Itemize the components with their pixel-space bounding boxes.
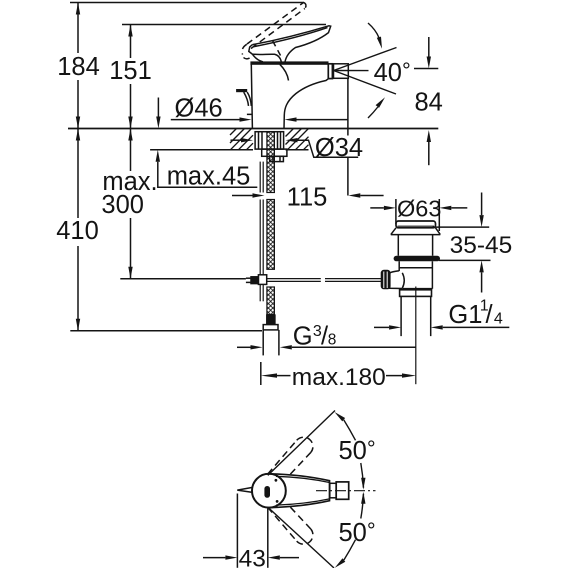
handle raised ghost (dashed) <box>242 3 306 59</box>
extension line handle rest level <box>122 24 326 26</box>
shank nut <box>262 149 287 156</box>
svg-text:G1: G1 <box>448 301 482 329</box>
deck hatching left <box>230 129 253 150</box>
svg-text:151: 151 <box>109 57 152 85</box>
faucet aerator <box>334 64 349 79</box>
dimension max.180 <box>261 362 416 385</box>
svg-text:Ø46: Ø46 <box>175 95 223 123</box>
svg-text:410: 410 <box>56 217 99 245</box>
svg-text:max.45: max.45 <box>167 163 251 191</box>
extension line top (raised handle level) <box>70 2 304 4</box>
supply pipe end <box>263 330 279 356</box>
drain tailpipe <box>401 296 431 336</box>
dimension max.45 (deck thickness) <box>156 98 258 188</box>
drain lower body <box>399 261 432 288</box>
50 degree lower arc arrow <box>344 494 364 560</box>
dimension G3/8 <box>237 345 416 349</box>
dimension G1 1/4 <box>374 325 509 329</box>
drain flange cap <box>396 221 436 228</box>
faucet body outline <box>251 64 328 128</box>
top view screw dots <box>275 479 278 482</box>
40 degree upper arc arrow <box>368 23 379 38</box>
hose end cap <box>267 315 275 323</box>
svg-text:43: 43 <box>239 546 266 568</box>
faucet pull-rod knob (left of body) <box>236 89 247 92</box>
svg-text:300: 300 <box>101 191 144 219</box>
mounting deck bottom line left <box>150 149 253 151</box>
svg-text:Ø34: Ø34 <box>315 134 363 162</box>
40 degree lower arc arrow <box>368 107 378 118</box>
dimension Ø34 (deck hole) <box>231 138 359 157</box>
pull rod clamp <box>246 275 267 285</box>
dimension 151 <box>128 25 132 129</box>
top view lever tip block <box>330 483 336 498</box>
deck hatching right <box>286 129 309 150</box>
svg-text:50°: 50° <box>339 518 376 547</box>
top view pull-rod knob <box>264 486 270 498</box>
top view lever inner lines <box>276 476 330 505</box>
dimension 410 <box>76 129 80 331</box>
ghost lever rotated up (dashed) <box>268 437 313 475</box>
faucet body inner curve <box>280 64 289 80</box>
svg-text:max.180: max.180 <box>292 364 386 391</box>
mounting deck bottom line right <box>286 149 309 151</box>
svg-text:4: 4 <box>494 310 503 327</box>
top view aerator block <box>336 482 349 499</box>
drain side port <box>390 271 405 289</box>
shank nut step <box>270 156 284 161</box>
handle top inner line <box>254 28 328 47</box>
pull rod below deck <box>260 162 263 302</box>
reference line bottom of max.300 (rod level) <box>120 278 246 280</box>
hose end nut <box>263 325 278 330</box>
svg-text:115: 115 <box>287 184 328 212</box>
svg-text:8: 8 <box>328 332 337 349</box>
faucet spout end cap <box>328 64 332 79</box>
50 degree upper ray <box>268 411 335 476</box>
aerator extension line (vertical) <box>347 79 349 196</box>
dimension Ø46 <box>171 117 348 121</box>
svg-text:G: G <box>293 323 313 351</box>
drain O-ring band <box>394 256 440 261</box>
top view body circle <box>252 474 286 508</box>
ghost lever rotated down (dashed) <box>268 506 313 544</box>
svg-text:40°: 40° <box>374 58 411 87</box>
40 degree spray rays <box>334 48 397 95</box>
50 degree lower ray <box>268 507 334 568</box>
faucet body top cap band <box>251 62 328 64</box>
drain flange <box>391 228 441 235</box>
drain lock nut <box>400 290 432 297</box>
drain knurled knob <box>381 270 391 290</box>
drain upper body <box>398 235 432 256</box>
dimension 84 <box>414 37 438 165</box>
drain bottom line <box>402 288 432 290</box>
dimension Ø63 <box>370 199 467 231</box>
top view lever outline <box>270 474 330 508</box>
drain centerline <box>415 287 417 385</box>
svg-text:50°: 50° <box>339 436 376 465</box>
shank washer under deck <box>255 132 284 149</box>
reference line bottom of 410 <box>70 330 262 332</box>
svg-text:184: 184 <box>57 53 100 81</box>
dimension 115 <box>232 193 384 197</box>
faucet handle lever <box>249 26 331 62</box>
dimension max.300 <box>128 129 132 279</box>
svg-text:Ø63: Ø63 <box>397 196 441 222</box>
top view centerline <box>316 490 376 492</box>
horizontal rod to drain <box>267 279 381 282</box>
top view pull rod wedge <box>237 487 252 492</box>
dimension 184 <box>76 3 80 129</box>
svg-text:84: 84 <box>415 89 443 117</box>
svg-text:35-45: 35-45 <box>450 232 513 259</box>
dimension 35-45 <box>433 193 491 293</box>
threaded rod (crosshatch) <box>267 132 275 315</box>
dimension 43 <box>203 494 299 568</box>
svg-text:/: / <box>486 301 494 329</box>
50 degree upper arc arrow <box>344 420 364 488</box>
mounting deck top line <box>68 128 438 130</box>
